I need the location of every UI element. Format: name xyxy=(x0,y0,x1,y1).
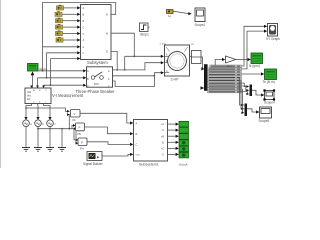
svg-text:Te (N.m): Te (N.m) xyxy=(263,80,275,84)
goto tag stack 5 xyxy=(179,146,189,152)
signal builder block xyxy=(87,152,102,161)
wire mux2 to scope5 xyxy=(247,109,259,114)
wire feedback top rail xyxy=(43,3,116,71)
ground G1 xyxy=(22,148,30,152)
timer block 1s xyxy=(167,10,174,14)
measurement block Vb xyxy=(71,110,81,118)
wire to display Te xyxy=(242,72,265,75)
svg-text:M: M xyxy=(106,32,108,35)
tap wire to Vb block input1 xyxy=(25,107,70,113)
svg-text:-B: -B xyxy=(162,141,165,144)
ground G3 xyxy=(46,148,54,152)
scope Scope1 xyxy=(195,8,205,22)
goto tag stack (green) 1 xyxy=(179,121,189,127)
wire subsystem1 out5 xyxy=(168,147,179,150)
svg-text:GotoA: GotoA xyxy=(179,163,188,167)
wire to XY graph input 2 xyxy=(242,30,268,69)
timer block T4 xyxy=(56,24,63,29)
svg-text:Pb: Pb xyxy=(78,132,82,136)
svg-text:Step1: Step1 xyxy=(140,33,149,37)
svg-text:Vb: Vb xyxy=(72,118,76,122)
mux MX1 xyxy=(250,85,253,97)
goto tag stack 2 xyxy=(179,128,189,134)
svg-text:-C: -C xyxy=(162,154,165,157)
signal list rows xyxy=(208,65,242,93)
wire VI c to source3 xyxy=(44,104,52,121)
window edge left xyxy=(0,0,2,168)
tap wire to Ph input2 xyxy=(76,132,79,145)
svg-text:P: P xyxy=(81,141,83,145)
goto tag stack 4 xyxy=(179,140,189,146)
three-phase breaker CB1 xyxy=(87,67,113,88)
svg-text:> Tm: > Tm xyxy=(160,42,167,46)
wire source2 to ground xyxy=(37,127,39,148)
ground G2 xyxy=(34,148,42,152)
svg-text:1s: 1s xyxy=(168,14,172,18)
svg-text:V-I Measurement: V-I Measurement xyxy=(52,93,84,98)
svg-text:VDC: VDC xyxy=(136,155,141,157)
gain G1 xyxy=(226,56,236,63)
svg-text:P: P xyxy=(79,126,81,130)
svg-text:D: D xyxy=(106,51,108,54)
wires rows to mux2 xyxy=(240,77,245,114)
wire timer T1 to port 1 xyxy=(64,6,81,9)
asynchronous machine MOT xyxy=(165,45,190,76)
scope Scope4 selected xyxy=(263,89,275,100)
wire subsystem1 out4 xyxy=(168,141,179,144)
goto tag stack 3 xyxy=(179,134,189,140)
neutral wire xyxy=(37,127,77,130)
svg-text:Subsystem1: Subsystem1 xyxy=(139,163,159,167)
wire 1s to scope1 xyxy=(173,11,192,15)
wire Pb to subsystem1 B xyxy=(85,127,134,135)
timer block T1 xyxy=(57,5,64,10)
AC source Vb xyxy=(35,120,45,127)
wire demux to bus selector xyxy=(201,57,204,71)
timer block T2 xyxy=(55,11,62,16)
subsystem U1 xyxy=(81,5,112,60)
svg-text:a: a xyxy=(30,123,32,126)
step source Step1 xyxy=(140,23,150,32)
wire subsystem M output xyxy=(111,33,134,56)
display Te (green) xyxy=(265,69,277,80)
svg-text:b: b xyxy=(42,122,44,126)
svg-text:B: B xyxy=(87,77,89,81)
svg-text:N (rpm): N (rpm) xyxy=(249,64,260,68)
wire VI b to source2 xyxy=(36,104,39,121)
svg-text:Subsystem: Subsystem xyxy=(87,60,108,65)
svg-text:m: m xyxy=(191,42,194,46)
svg-text:A: A xyxy=(87,69,89,73)
wire breaker phase c loop xyxy=(113,75,155,87)
wire Ph to subsystem1 C xyxy=(87,142,133,146)
svg-text:C: C xyxy=(83,33,85,36)
wire to gain xyxy=(215,58,225,65)
ground G4 xyxy=(58,148,66,152)
svg-text:-A: -A xyxy=(162,129,165,132)
wire phase A to subsystem port 7 xyxy=(43,45,81,48)
wire to breaker C xyxy=(44,84,87,88)
wire mux1 to scope4 xyxy=(252,90,264,96)
wire timer T2 to port 2 xyxy=(62,13,80,16)
wire to breaker B xyxy=(38,76,87,88)
goto tag stack 6 xyxy=(179,152,189,158)
svg-text:Signal Builder: Signal Builder xyxy=(83,162,104,166)
svg-text:+B: +B xyxy=(161,135,164,138)
scope Scope5 xyxy=(260,107,272,118)
wire timer T4 to port 4 xyxy=(63,26,81,29)
wire VI a to source1 xyxy=(24,104,31,121)
svg-text:Scope1: Scope1 xyxy=(195,23,206,27)
wire phase B tap xyxy=(47,51,81,78)
V-I measurement block M1 xyxy=(25,88,51,104)
wire to breaker A xyxy=(32,69,87,72)
wire machine input 1 xyxy=(125,55,164,58)
machine output stub xyxy=(190,55,192,57)
wire signal builder to subsystem1 VDC xyxy=(102,153,133,156)
wire neutral to ground4 xyxy=(61,129,63,148)
wires rows to mux1 xyxy=(242,83,250,95)
AC source Va xyxy=(23,120,30,127)
wire subsystem1 out6 xyxy=(168,153,179,156)
svg-text:+A: +A xyxy=(161,123,164,126)
bus selector BS1 xyxy=(204,65,207,91)
wire timer T6 to port 6 xyxy=(63,38,80,41)
timer block T5 xyxy=(56,30,63,35)
wire machine input 2 xyxy=(113,56,164,71)
wire subsystem1 out2 xyxy=(168,129,179,132)
measurement block Ph xyxy=(78,138,87,146)
svg-text:3 HP: 3 HP xyxy=(171,78,180,82)
svg-text:50/5: 50/5 xyxy=(94,83,99,86)
svg-text:Scope4: Scope4 xyxy=(264,101,275,105)
measurement block Pb xyxy=(76,123,85,131)
tap wire to Pb input1 xyxy=(72,124,76,129)
XY graph block xyxy=(268,24,278,37)
demux block D1 xyxy=(192,51,202,64)
svg-text:Ph: Ph xyxy=(80,147,84,151)
wire gain to display1 xyxy=(236,58,251,61)
svg-text:C: C xyxy=(166,70,168,73)
wire subsystem D output xyxy=(111,51,117,70)
arrow into goto tag xyxy=(31,71,35,88)
wire source1 to ground xyxy=(25,127,27,148)
wire to XY graph input 1 xyxy=(242,25,268,66)
wire timer T5 to port 5 xyxy=(63,32,81,35)
display N rpm (green) xyxy=(251,53,263,64)
svg-text:c: c xyxy=(54,123,56,126)
wire source3 to ground xyxy=(49,127,51,148)
timer block T3 xyxy=(56,18,63,23)
wire Vb to subsystem1 A xyxy=(80,113,133,124)
wire subsystem1 out1 xyxy=(168,123,179,126)
svg-text:C: C xyxy=(136,144,138,147)
wire timer T3 to port 3 xyxy=(63,19,81,22)
svg-text:XY Graph: XY Graph xyxy=(266,37,280,41)
svg-text:C: C xyxy=(83,26,85,29)
svg-text:C: C xyxy=(87,84,89,88)
tap wire to Ph input1 xyxy=(74,129,78,142)
goto tag Vabc (green) xyxy=(28,64,39,72)
timer block T6 xyxy=(56,37,63,42)
tap wire to Vb block input2 xyxy=(67,113,70,129)
subsystem1 block xyxy=(134,120,168,162)
wire subsystem1 out3 xyxy=(168,135,179,138)
arrowheads into V-I top ports xyxy=(30,86,45,89)
svg-text:Gain: Gain xyxy=(227,64,233,68)
wire machine input 3 xyxy=(113,71,164,76)
AC source Vc xyxy=(47,120,57,127)
mux MX2 xyxy=(245,104,248,117)
wire phase C tap xyxy=(51,57,81,85)
svg-text:V: V xyxy=(74,112,76,116)
arrow below bus selector xyxy=(201,86,205,90)
svg-text:Scope5: Scope5 xyxy=(259,119,270,123)
svg-text:+C: +C xyxy=(161,148,164,151)
